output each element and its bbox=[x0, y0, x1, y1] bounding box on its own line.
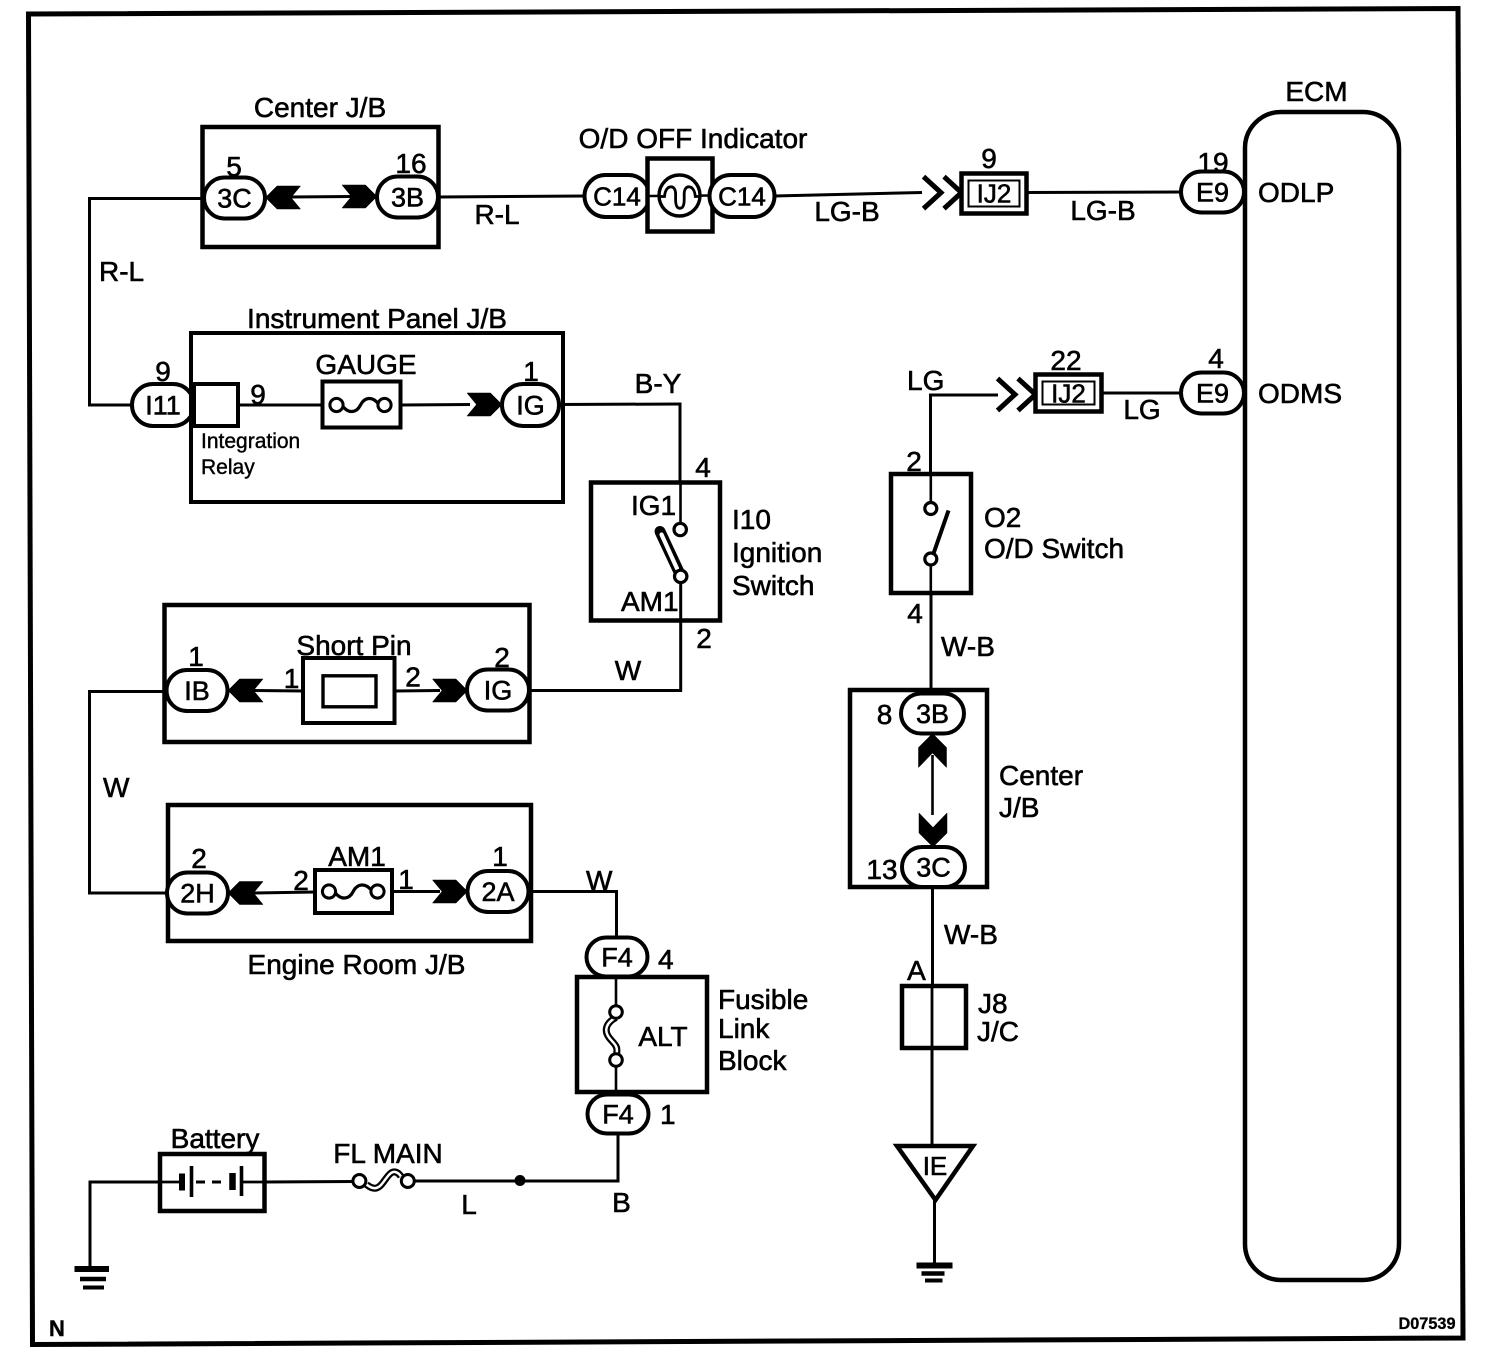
svg-text:LG: LG bbox=[907, 365, 944, 396]
svg-text:Battery: Battery bbox=[171, 1123, 260, 1154]
svg-text:B: B bbox=[612, 1187, 631, 1218]
wire relay to GAUGE fuse bbox=[238, 404, 324, 407]
svg-text:IJ2: IJ2 bbox=[1051, 379, 1086, 409]
label LG bbox=[1123, 394, 1160, 425]
junction block (Short Pin) box bbox=[165, 605, 530, 742]
svg-text:AM1: AM1 bbox=[328, 841, 386, 872]
pin 1 of connector IG bbox=[523, 356, 539, 387]
connector 3B (Center J/B) bbox=[377, 177, 438, 218]
connector arrow (down) bbox=[919, 813, 947, 847]
label Instrument Panel J/B bbox=[247, 303, 507, 334]
wire to AM1 fuse bbox=[252, 892, 316, 893]
svg-text:1: 1 bbox=[284, 663, 300, 694]
svg-text:IJ2: IJ2 bbox=[977, 179, 1012, 209]
label W-B bbox=[944, 919, 998, 950]
svg-text:16: 16 bbox=[395, 148, 426, 179]
svg-text:1: 1 bbox=[188, 641, 204, 672]
svg-text:W: W bbox=[615, 655, 642, 686]
svg-text:Block: Block bbox=[718, 1045, 787, 1076]
svg-text:I11: I11 bbox=[145, 391, 181, 421]
label B-Y bbox=[635, 368, 682, 399]
drawing number D07539 bbox=[1399, 1315, 1456, 1333]
svg-text:Integration: Integration bbox=[201, 430, 300, 453]
svg-text:C14: C14 bbox=[718, 181, 766, 211]
svg-text:2H: 2H bbox=[180, 879, 215, 909]
pin 2 of connector 2H bbox=[191, 843, 207, 874]
wire LG-B from IJ2 to ECM pin E9 bbox=[1026, 191, 1182, 195]
wire L to node B bbox=[414, 1180, 618, 1183]
pin 2 of connector IG bbox=[494, 642, 510, 673]
label ECM bbox=[1285, 76, 1347, 107]
ground (IE) bbox=[917, 1266, 953, 1281]
wire B from F4 down to battery feed bbox=[617, 1134, 620, 1183]
svg-text:W-B: W-B bbox=[944, 919, 998, 950]
svg-text:W: W bbox=[586, 865, 613, 896]
svg-text:W-B: W-B bbox=[941, 631, 995, 662]
connector arrow (female, left) bbox=[228, 882, 263, 905]
svg-text:R-L: R-L bbox=[474, 199, 519, 230]
label LG bbox=[907, 365, 944, 396]
svg-text:4: 4 bbox=[658, 944, 674, 975]
connector 3B (right) bbox=[901, 694, 964, 734]
wire fuse to 2A bbox=[392, 890, 440, 893]
pin 13 of connector 3C bbox=[866, 854, 897, 885]
fusible link FL MAIN bbox=[353, 1172, 414, 1188]
label R-L bbox=[474, 199, 519, 230]
svg-text:Relay: Relay bbox=[201, 456, 255, 479]
wire W from switch AM1 down to Short Pin IG bbox=[528, 582, 682, 692]
fuse AM1 box bbox=[315, 870, 392, 913]
svg-text:ECM: ECM bbox=[1285, 76, 1347, 107]
pin 2 of ignition switch bbox=[696, 623, 712, 654]
label FL MAIN bbox=[333, 1138, 442, 1169]
pin 2 of fuse AM1 bbox=[293, 865, 309, 896]
wire LG from IJ2 to ECM pin E9 bbox=[1102, 392, 1183, 395]
svg-text:N: N bbox=[49, 1316, 65, 1341]
O/D main switch O2 box bbox=[891, 474, 971, 593]
label W bbox=[586, 865, 613, 896]
wire inside Center J/B bbox=[931, 755, 934, 815]
svg-text:J/C: J/C bbox=[977, 1016, 1019, 1047]
connector arrow (male, right) bbox=[342, 185, 377, 208]
connector arrow (male, right) bbox=[433, 679, 468, 702]
pin name ODMS bbox=[1258, 378, 1342, 409]
connector 3C (Center J/B) bbox=[204, 178, 265, 219]
svg-text:13: 13 bbox=[866, 854, 897, 885]
label Battery bbox=[171, 1123, 260, 1154]
label Short Pin bbox=[296, 630, 411, 661]
svg-text:Instrument Panel J/B: Instrument Panel J/B bbox=[247, 303, 507, 334]
label J8 J/C bbox=[977, 988, 1019, 1047]
svg-text:Link: Link bbox=[718, 1013, 770, 1044]
ground point IE (triangle) bbox=[897, 1146, 973, 1200]
integration relay box bbox=[194, 384, 238, 426]
label W-B bbox=[941, 631, 995, 662]
svg-text:1: 1 bbox=[492, 841, 508, 872]
svg-text:E9: E9 bbox=[1196, 379, 1229, 409]
wire J8 to ground point IE bbox=[931, 1048, 934, 1147]
sheet mark N bbox=[49, 1316, 65, 1341]
svg-text:C14: C14 bbox=[593, 181, 641, 211]
wire short pin to IG bbox=[394, 689, 440, 693]
connector 2A bbox=[468, 871, 529, 912]
wire LG from O/D switch to IJ2 bbox=[929, 394, 998, 476]
pin 1 of connector IB bbox=[188, 641, 204, 672]
svg-text:O/D OFF Indicator: O/D OFF Indicator bbox=[579, 123, 808, 154]
lamp L1 (bulb symbol) bbox=[659, 175, 700, 216]
connector arrow (male, right) bbox=[467, 393, 502, 416]
svg-text:E9: E9 bbox=[1196, 178, 1229, 208]
svg-text:ODMS: ODMS bbox=[1258, 378, 1342, 409]
pin 5 of connector 3C bbox=[226, 151, 242, 182]
junction connector IJ2 (right) bbox=[1036, 375, 1102, 412]
switch S2 lever and contacts bbox=[925, 474, 949, 593]
fuse GAUGE box bbox=[323, 382, 401, 428]
svg-text:Center: Center bbox=[999, 760, 1083, 791]
svg-text:ALT: ALT bbox=[638, 1021, 687, 1052]
svg-text:D07539: D07539 bbox=[1399, 1315, 1456, 1333]
pin 4 of ignition switch bbox=[695, 452, 711, 483]
svg-text:O/D Switch: O/D Switch bbox=[984, 533, 1124, 564]
wire W-B from 3C to J8 bbox=[931, 887, 934, 988]
label B bbox=[612, 1187, 631, 1218]
wire to short pin bbox=[252, 689, 305, 693]
wire IE to chassis ground bbox=[933, 1200, 936, 1266]
svg-text:GAUGE: GAUGE bbox=[315, 349, 416, 380]
svg-text:Center J/B: Center J/B bbox=[254, 92, 386, 123]
junction node bbox=[515, 1175, 526, 1186]
wire LG-B from C14 to IJ2 bbox=[774, 193, 922, 197]
svg-text:IG: IG bbox=[516, 391, 545, 421]
connector IB bbox=[167, 670, 228, 711]
pin 4 of O/D switch bbox=[907, 598, 923, 629]
connector arrow (up) bbox=[919, 734, 947, 768]
svg-text:J/B: J/B bbox=[999, 792, 1039, 823]
svg-text:2: 2 bbox=[191, 843, 207, 874]
svg-text:3B: 3B bbox=[391, 183, 424, 213]
wire battery negative to ground bbox=[89, 1181, 161, 1266]
svg-text:IG: IG bbox=[484, 676, 513, 706]
O/D OFF indicator lamp box bbox=[648, 159, 713, 232]
fusible link ALT symbol bbox=[606, 977, 622, 1092]
connector I11 bbox=[132, 384, 194, 426]
svg-text:3C: 3C bbox=[217, 184, 252, 214]
in-line connector chevrons bbox=[998, 379, 1036, 411]
svg-text:3B: 3B bbox=[916, 699, 949, 729]
pin 1 of fuse AM1 bbox=[398, 864, 414, 895]
pin 2 of short pin bbox=[405, 662, 421, 693]
junction block Center J/B (top) bbox=[203, 127, 439, 247]
svg-text:ODLP: ODLP bbox=[1258, 177, 1334, 208]
svg-text:LG-B: LG-B bbox=[1070, 195, 1135, 226]
svg-text:2: 2 bbox=[405, 662, 421, 693]
svg-text:IG1: IG1 bbox=[631, 490, 676, 521]
value label ALT bbox=[638, 1021, 687, 1052]
junction connector IJ2 (top) bbox=[962, 174, 1027, 214]
label W (vertical run) bbox=[103, 772, 130, 803]
svg-text:B-Y: B-Y bbox=[635, 368, 682, 399]
label I10 Ignition Switch bbox=[732, 504, 822, 601]
svg-text:8: 8 bbox=[877, 699, 893, 730]
label Engine Room J/B bbox=[248, 949, 466, 980]
wire R-L from Center J/B 3C down-left to Instrument Panel I11 bbox=[88, 199, 204, 407]
svg-text:Fusible: Fusible bbox=[718, 984, 808, 1015]
in-line connector chevrons bbox=[924, 177, 962, 209]
ground (battery) bbox=[75, 1269, 110, 1288]
junction block Center J/B (right) bbox=[850, 690, 987, 887]
label LG-B bbox=[814, 196, 879, 227]
label Fusible Link Block bbox=[718, 984, 808, 1076]
ignition switch I10 box bbox=[591, 483, 720, 621]
connector F4 pin 1 bbox=[588, 1095, 676, 1134]
svg-text:LG-B: LG-B bbox=[814, 196, 879, 227]
svg-text:AM1: AM1 bbox=[621, 586, 679, 617]
label AM1 bbox=[328, 841, 386, 872]
pin 9 (relay output) bbox=[250, 379, 266, 410]
label O/D OFF Indicator bbox=[579, 123, 808, 154]
ECM block bbox=[1245, 112, 1399, 1280]
pin 2 of O/D switch bbox=[906, 446, 922, 477]
pin 1 of connector 2A bbox=[492, 841, 508, 872]
svg-text:J8: J8 bbox=[978, 988, 1008, 1019]
svg-text:22: 22 bbox=[1050, 345, 1081, 376]
terminal name AM1 bbox=[621, 586, 679, 617]
svg-text:IE: IE bbox=[923, 1151, 948, 1181]
junction connector J8 J/C bbox=[902, 986, 966, 1048]
svg-text:R-L: R-L bbox=[99, 256, 144, 287]
connector E9 (ODLP) bbox=[1181, 172, 1244, 213]
wire W from IB down to Engine Room 2H bbox=[89, 690, 168, 895]
pin name ODLP bbox=[1258, 177, 1334, 208]
pin 8 of connector 3B bbox=[877, 699, 893, 730]
label Integration Relay bbox=[201, 430, 300, 479]
label Center J/B bbox=[254, 92, 386, 123]
connector IG (Short Pin block) bbox=[467, 670, 529, 711]
fusible link block box bbox=[577, 977, 707, 1092]
svg-text:3C: 3C bbox=[916, 853, 951, 883]
wire battery positive to FL MAIN bbox=[265, 1180, 355, 1184]
svg-text:9: 9 bbox=[981, 143, 997, 174]
label L bbox=[461, 1189, 477, 1220]
label R-L (vertical run) bbox=[99, 256, 144, 287]
svg-text:1: 1 bbox=[660, 1099, 676, 1130]
wire W from 2A to fusible link block bbox=[529, 890, 618, 939]
svg-text:F4: F4 bbox=[602, 1100, 634, 1130]
svg-text:Ignition: Ignition bbox=[732, 537, 822, 568]
pin 9 of junction connector IJ2 bbox=[981, 143, 997, 174]
connector F4 pin 4 bbox=[587, 938, 674, 977]
connector 2H bbox=[167, 873, 228, 914]
wire into switch contact bbox=[679, 482, 682, 524]
terminal name IG1 bbox=[631, 490, 676, 521]
svg-text:F4: F4 bbox=[601, 943, 633, 973]
pin 9 of connector I11 bbox=[155, 356, 171, 387]
label LG-B bbox=[1070, 195, 1135, 226]
svg-text:FL MAIN: FL MAIN bbox=[333, 1138, 442, 1169]
svg-text:IB: IB bbox=[184, 676, 210, 706]
wire fuse to IG bbox=[401, 403, 470, 407]
pin 1 of short pin bbox=[284, 663, 300, 694]
pin 22 of junction connector IJ2 bbox=[1050, 345, 1081, 376]
svg-text:2: 2 bbox=[696, 623, 712, 654]
connector arrow (male, right) bbox=[433, 880, 468, 903]
connector C14 (right) bbox=[710, 175, 775, 217]
label Center J/B (right) bbox=[999, 760, 1083, 823]
svg-text:Engine Room J/B: Engine Room J/B bbox=[248, 949, 466, 980]
battery BAT1 bbox=[160, 1154, 265, 1211]
svg-text:L: L bbox=[461, 1189, 477, 1220]
connector 3C (right) bbox=[902, 847, 965, 887]
connector arrow (female, left) bbox=[228, 679, 263, 702]
svg-text:4: 4 bbox=[1208, 343, 1224, 374]
svg-text:LG: LG bbox=[1123, 394, 1160, 425]
svg-text:W: W bbox=[103, 772, 130, 803]
switch S1 lever and contacts bbox=[660, 523, 687, 582]
junction block Engine Room J/B bbox=[168, 805, 531, 941]
label GAUGE bbox=[315, 349, 416, 380]
pin 16 of connector 3B bbox=[395, 148, 426, 179]
short pin component (nested boxes) bbox=[303, 658, 395, 723]
svg-text:Switch: Switch bbox=[732, 570, 814, 601]
pin 19 of connector E9 bbox=[1197, 147, 1228, 178]
connector E9 (ODMS) bbox=[1181, 373, 1244, 414]
label O2 O/D Switch bbox=[984, 502, 1124, 564]
svg-text:A: A bbox=[907, 955, 926, 986]
connector IG (Instrument Panel J/B) bbox=[502, 384, 559, 426]
connector C14 (left) bbox=[585, 175, 650, 217]
junction block Instrument Panel J/B bbox=[191, 333, 563, 502]
svg-text:4: 4 bbox=[695, 452, 711, 483]
svg-text:I10: I10 bbox=[732, 504, 771, 535]
wire B-Y from IG to ignition switch bbox=[559, 404, 682, 484]
wire inside Center J/B bbox=[289, 195, 353, 199]
label W bbox=[615, 655, 642, 686]
svg-text:2A: 2A bbox=[481, 877, 514, 907]
pin 4 of connector E9 bbox=[1208, 343, 1224, 374]
svg-text:O2: O2 bbox=[984, 502, 1021, 533]
wire R-L from 3B to O/D OFF indicator bbox=[438, 196, 586, 197]
connector arrow (female, left) bbox=[266, 186, 301, 209]
svg-text:2: 2 bbox=[293, 865, 309, 896]
wire W-B from O/D switch to Center J/B 3B bbox=[930, 593, 933, 695]
pin A of J8 bbox=[907, 955, 926, 986]
svg-text:4: 4 bbox=[907, 598, 923, 629]
